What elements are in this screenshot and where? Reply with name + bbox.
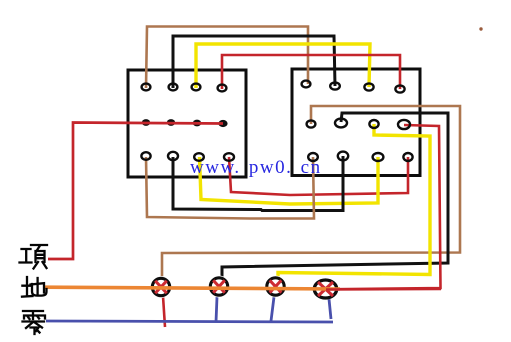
- svg-text:www. pw0. cn: www. pw0. cn: [190, 157, 322, 178]
